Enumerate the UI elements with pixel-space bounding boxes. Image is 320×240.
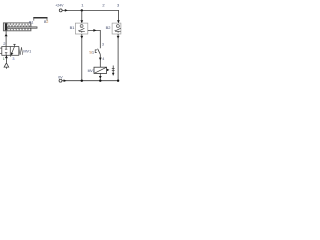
ruler tick left [33, 19, 35, 21]
B1 reed bulb circle [80, 25, 83, 28]
S1 actuator [95, 50, 97, 53]
svg-text:4: 4 [102, 57, 104, 61]
B2 contact diagonal [117, 28, 121, 30]
B2 contact lead [115, 29, 117, 31]
svg-text:B2: B2 [106, 25, 112, 30]
solenoid coil MV1 [94, 67, 107, 73]
arrow down into B2 [117, 20, 120, 23]
flow arrow up (pipe to cylinder) [5, 34, 8, 37]
svg-text:3: 3 [12, 57, 14, 61]
arrow down into B1 [80, 20, 83, 23]
arrow right on bottom rail [64, 79, 67, 82]
arrow down below B1 [80, 36, 83, 39]
ruler (position scale) [33, 17, 47, 19]
arrow down below S1 [99, 58, 102, 61]
blocked port T (left square top, port 2) [5, 47, 7, 50]
svg-text:+24V: +24V [55, 4, 64, 8]
return spring (valve right) [19, 47, 23, 55]
B2 contact bar [115, 30, 121, 32]
svg-text:B1: B1 [29, 21, 33, 25]
pushbutton S1 contact [98, 49, 101, 55]
B1 contact diagonal [80, 28, 84, 30]
port 3 stub [10, 55, 12, 56]
B1 bar tick [81, 31, 83, 32]
B1 contact lead [78, 29, 80, 31]
proximity switch B2 box [112, 23, 121, 34]
pipe cylinder to valve port 2 [5, 31, 7, 47]
arrow right on top rail [65, 9, 68, 12]
B1 contact bar [79, 30, 85, 32]
B2 bottom wire to 0V [117, 34, 119, 81]
solenoid link pin [112, 66, 114, 76]
junction dot branch3/0V [117, 80, 119, 82]
svg-text:1: 1 [3, 57, 5, 61]
svg-text:S1: S1 [89, 50, 95, 55]
svg-text:MV1: MV1 [23, 49, 31, 53]
arrow down below B2 [117, 36, 120, 39]
piston [5, 23, 7, 30]
coil bottom wire to 0V [99, 73, 101, 80]
bottom rail 0V [62, 80, 118, 82]
svg-text:MV1: MV1 [88, 69, 95, 73]
svg-text:B1: B1 [70, 25, 76, 30]
compressed air source (triangle) [4, 63, 9, 67]
0V terminal [59, 79, 62, 82]
B1 bottom wire to 0V [81, 34, 83, 81]
pipe valve port 1 to air source [5, 55, 7, 63]
valve position divider [9, 47, 11, 56]
cylinder 1A (single-acting, spring return) body [3, 23, 31, 31]
flow arrow up (source pipe) [5, 56, 8, 59]
solenoid stub (left, cut off) [0, 47, 2, 49]
junction dot coil/0V [99, 80, 101, 82]
piston rod [7, 27, 37, 28]
solenoid link arrow [107, 69, 110, 72]
valve MV1 body (3/2-way) [2, 47, 19, 56]
node 1 junction dot [81, 9, 83, 11]
B1 output right wire [88, 30, 101, 48]
top rail +24V [62, 10, 118, 23]
ruler tick right [46, 19, 48, 21]
spring (return spring crosshatch) [8, 24, 31, 31]
junction dot branch1/0V [81, 80, 83, 82]
B2 bar tick [117, 31, 119, 32]
svg-text:B2: B2 [44, 20, 48, 24]
arrow right on B1 output [93, 29, 96, 32]
blocked port T (left square bottom, port 1) [5, 53, 7, 56]
proximity switch B1 box [75, 23, 87, 34]
svg-text:3: 3 [102, 43, 104, 47]
port 2' stub with T above right square [14, 44, 16, 46]
exhaust path diagonal 2->3 (right square) with arrow [11, 47, 15, 56]
+24V terminal [59, 9, 62, 12]
B2 reed bulb circle [116, 25, 119, 28]
arrow down below coil [99, 76, 102, 79]
branch 1 wire down [81, 10, 83, 23]
